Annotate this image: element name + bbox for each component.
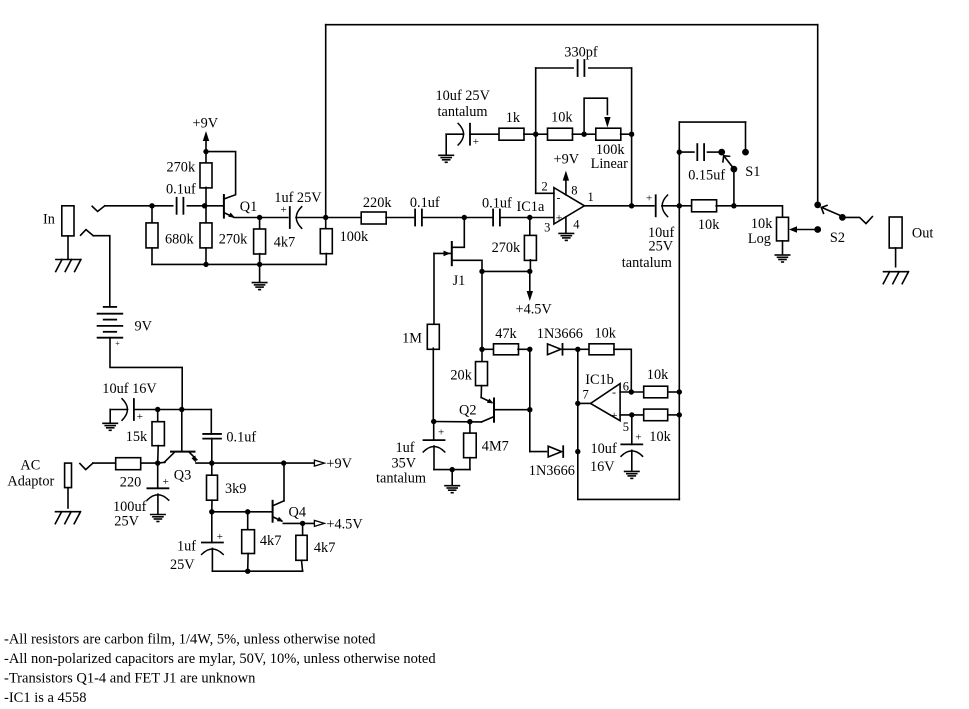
note: wire from ground up-left of cap	[446, 133, 463, 135]
resistor 10k fb lower	[644, 409, 668, 421]
wire cap to Q1 base node	[187, 205, 204, 207]
node 15k top	[155, 407, 160, 412]
svg-text:8: 8	[571, 184, 577, 198]
wire pot to output node	[631, 134, 633, 206]
wire 330pf right leg	[631, 68, 633, 134]
wire 10k fb upper to bus	[668, 391, 680, 393]
wire power rail top	[134, 409, 211, 411]
node output bus	[677, 203, 682, 208]
wire 3k9 bottom lead	[211, 500, 213, 512]
node pin5/cap	[629, 412, 634, 417]
node 4k7 left top	[245, 509, 250, 514]
transistor Q1	[224, 195, 235, 218]
svg-text:4: 4	[573, 218, 580, 232]
ground IC1a pin4	[559, 233, 573, 240]
ground 10k pot	[775, 255, 789, 262]
wire contact to 220	[93, 462, 116, 464]
wire J1 source node down	[481, 271, 483, 349]
capacitor 0.1uf input	[177, 198, 184, 214]
wire 220k to cap	[386, 217, 415, 219]
node Q2 base tap	[527, 407, 532, 412]
svg-text:Log: Log	[748, 231, 771, 247]
resistor 3k9	[207, 475, 218, 500]
wire Q2 base lead	[494, 409, 530, 411]
node S1 wiper	[731, 166, 738, 173]
svg-text:-All non-polarized capacitors: -All non-polarized capacitors are mylar,…	[4, 651, 436, 667]
wire 100k top lead	[325, 218, 327, 229]
svg-text:20k: 20k	[450, 367, 472, 383]
node 0.15uf left	[677, 149, 682, 154]
svg-text:10k: 10k	[698, 217, 720, 233]
svg-text:2: 2	[542, 179, 548, 193]
svg-text:+: +	[137, 411, 143, 423]
svg-text:4k7: 4k7	[274, 234, 295, 250]
switch S2 selector arrow	[821, 205, 840, 215]
wire 220 to node	[141, 462, 158, 464]
battery 9V	[98, 307, 123, 338]
wire node to 10k	[536, 133, 548, 135]
resistor 680k	[146, 223, 158, 248]
wire Q3 base	[181, 410, 183, 451]
arrow +4.5V bias	[527, 291, 533, 301]
svg-text:3: 3	[544, 221, 550, 235]
wire 100uf to ground	[157, 494, 159, 514]
resistor 220k	[361, 212, 386, 224]
in-jack ring contact	[81, 230, 94, 236]
resistor 10k gain	[548, 128, 573, 140]
capacitor 0.1uf power	[203, 434, 221, 439]
wire 270k bias bottom lead	[529, 260, 532, 272]
node rail/4k7/ground	[257, 262, 262, 267]
wire pin3 node to IC1a	[530, 217, 554, 219]
wire Q1 collector	[206, 152, 236, 199]
wire 100k bottom to rail	[325, 254, 328, 265]
wire S1 bracket top	[679, 121, 745, 123]
svg-text:35V: 35V	[392, 455, 417, 471]
AC adaptor jack	[65, 463, 72, 488]
svg-text:IC1a: IC1a	[517, 199, 545, 215]
wire 330pf left leg	[535, 68, 537, 193]
wire rail to ground	[259, 264, 261, 282]
svg-text:270k: 270k	[167, 160, 196, 176]
wire battery to power rail	[110, 338, 182, 410]
svg-text:270k: 270k	[492, 240, 521, 256]
wire 10k env to pin6	[614, 349, 632, 392]
node diode/10k/pin7 bus	[575, 347, 580, 352]
svg-text:6: 6	[623, 379, 629, 393]
resistor 270k lower	[200, 223, 212, 248]
resistor 4k7 right	[296, 535, 307, 560]
svg-text:10uf 16V: 10uf 16V	[102, 381, 157, 397]
node 3k9/base line	[209, 509, 214, 514]
svg-text:10k: 10k	[595, 325, 617, 341]
node pin6	[629, 389, 634, 394]
capacitor 0.1uf mid-2	[493, 210, 500, 226]
wire output bus vertical	[678, 122, 680, 499]
wire top bypass line	[326, 24, 818, 26]
wire 1uf cap to 100k node	[296, 217, 326, 219]
capacitor 1uf 25V	[290, 207, 302, 229]
wire pot right to node	[621, 133, 632, 135]
node IC1a pin3 / 270k	[527, 215, 532, 220]
resistor 4M7	[464, 433, 477, 458]
wire vertical to top bypass wire	[325, 25, 327, 218]
svg-text:0.1uf: 0.1uf	[410, 195, 440, 211]
svg-text:10uf 25V: 10uf 25V	[436, 88, 491, 104]
svg-text:3k9: 3k9	[225, 481, 246, 497]
node fb lower/bus	[677, 412, 682, 417]
wire +9V arrow shaft	[205, 138, 207, 152]
wire bus to 10k	[679, 205, 692, 207]
node S1 terminal 2	[742, 149, 749, 156]
wire 270k IC1a top lead	[529, 218, 531, 236]
wire node to cap 0.1uf	[152, 205, 173, 207]
svg-text:+9V: +9V	[326, 456, 352, 472]
resistor 4k7 left	[242, 530, 255, 554]
wire input stage ground rail	[152, 263, 326, 265]
wire Q2 base vertical	[529, 349, 531, 451]
wire rail corner down	[210, 410, 212, 435]
svg-text:25V: 25V	[170, 557, 195, 573]
AC jack contact	[80, 463, 93, 470]
svg-text:16V: 16V	[590, 459, 615, 475]
node input/680k	[149, 203, 154, 208]
ground ic1b cap	[625, 471, 639, 478]
wire pot wiper jumper	[584, 98, 607, 134]
node Q4 collector takeoff	[281, 460, 286, 465]
wire 0.15uf to S1 term1	[708, 151, 720, 153]
wire 1k to node	[524, 133, 536, 135]
ground envelope	[445, 486, 459, 493]
svg-text:15k: 15k	[126, 429, 148, 445]
svg-text:9V: 9V	[135, 319, 153, 335]
wire 4k7L top lead	[247, 512, 249, 530]
switch S1 selector arrow	[723, 156, 733, 167]
capacitor 0.15uf	[697, 144, 704, 160]
resistor 47k	[494, 344, 519, 355]
node Q1 base	[202, 203, 207, 208]
wire to lower diode	[530, 451, 547, 453]
svg-text:tantalum: tantalum	[622, 255, 672, 271]
wire 1uf power top lead	[211, 512, 213, 543]
svg-text:4k7: 4k7	[260, 533, 281, 549]
op-amp IC1a	[554, 188, 585, 225]
wire 10k fb lower to bus	[668, 414, 680, 416]
node 47k/20k junction	[479, 347, 484, 352]
wire diode to node	[563, 348, 578, 350]
wire 100k node to 220k	[326, 217, 362, 219]
node 47k/diode/Q2-base	[527, 347, 532, 352]
svg-text:-Transistors Q1-4 and FET J1 a: -Transistors Q1-4 and FET J1 are unknown	[4, 671, 256, 687]
svg-text:10k: 10k	[647, 367, 669, 383]
wire Q1 emitter line	[235, 217, 260, 219]
wire Q3 collector to node	[158, 461, 165, 464]
wire pin5 cap lead	[631, 415, 633, 445]
svg-text:+9V: +9V	[193, 116, 219, 132]
wire Q2 collector line	[434, 421, 482, 423]
svg-text:100k: 100k	[340, 229, 369, 245]
wire 20k bottom lead	[480, 386, 482, 398]
resistor 1k	[499, 128, 524, 140]
wire 330pf top right	[589, 67, 632, 69]
wire pot wiper lead	[793, 229, 815, 231]
node fb upper/bus	[677, 389, 682, 394]
svg-text:220k: 220k	[363, 195, 392, 211]
svg-text:220: 220	[120, 474, 141, 490]
svg-text:10uf: 10uf	[591, 441, 617, 457]
svg-text:IC1b: IC1b	[585, 372, 614, 388]
wire node to 10k env	[578, 348, 589, 350]
svg-text:7: 7	[583, 387, 589, 401]
resistor 4k7 Q1	[254, 229, 266, 254]
svg-text:tantalum: tantalum	[376, 471, 426, 487]
svg-text:0.1uf: 0.1uf	[482, 195, 512, 211]
svg-text:25V: 25V	[114, 513, 139, 529]
capacitor 10uf 16V power	[122, 399, 134, 421]
wire Q4 collector	[283, 463, 285, 501]
node J1 drain	[462, 215, 467, 220]
wire Q2 ground rail	[434, 469, 470, 471]
wire S1 wiper down	[733, 169, 735, 206]
wire out jack to ground	[895, 248, 897, 267]
wire 680k top lead	[151, 206, 153, 223]
wire node to pot	[584, 133, 596, 135]
svg-text:+: +	[556, 210, 563, 224]
resistor 100k input stage	[320, 229, 332, 254]
svg-text:+: +	[115, 339, 120, 348]
node battery/power rail	[179, 407, 184, 412]
wire 3k9 top lead	[211, 463, 213, 475]
svg-text:AC: AC	[20, 458, 40, 474]
wire emitter node to 1uf cap	[260, 217, 288, 219]
svg-text:+9V: +9V	[554, 152, 580, 168]
transistor Q2	[481, 398, 494, 422]
wire 1M bottom	[432, 348, 434, 421]
wire tant cap ground lead	[445, 134, 447, 154]
output jack J-out	[889, 217, 902, 248]
wire 330pf top left	[536, 67, 573, 69]
wire 4k7 top lead	[259, 218, 261, 230]
wire in-jack sleeve to ground	[67, 236, 69, 259]
wire tant cap to 1k	[470, 133, 499, 135]
svg-text:J1: J1	[453, 273, 466, 289]
wire IC1b pin6 line	[620, 391, 644, 393]
node +4.5V takeoff	[300, 521, 305, 526]
svg-text:10k: 10k	[551, 110, 573, 126]
node 4M7 top	[467, 419, 472, 424]
svg-text:0.15uf: 0.15uf	[688, 168, 725, 184]
svg-text:47k: 47k	[495, 326, 517, 342]
wire 270k to base node	[205, 187, 207, 222]
svg-text:4M7: 4M7	[482, 439, 509, 455]
svg-text:1N3666: 1N3666	[529, 463, 575, 479]
resistor 220	[116, 458, 141, 470]
wire bias line	[482, 270, 530, 272]
wire cap2 to pin3 node	[500, 217, 530, 219]
svg-text:Q4: Q4	[289, 505, 306, 521]
wire ic1b cap to ground	[631, 450, 633, 470]
svg-text:+: +	[217, 531, 223, 543]
svg-text:-IC1 is a 4558: -IC1 is a 4558	[4, 690, 87, 706]
diode 1N3666 lower	[548, 446, 563, 457]
node Q1 emitter / 4k7	[257, 215, 262, 220]
capacitor 1uf 25V power	[202, 543, 224, 555]
svg-text:1M: 1M	[402, 331, 422, 347]
chassis ground AC jack	[55, 512, 80, 524]
wire bottom feedback	[578, 498, 680, 500]
node rail/270k	[203, 262, 208, 267]
wire 4k7L bottom lead	[247, 554, 249, 572]
node 1k/10k/330pf	[533, 132, 538, 137]
node IC1a output	[629, 203, 634, 208]
wire 4M7 top lead	[469, 422, 471, 433]
wire 680k bottom lead	[151, 248, 153, 264]
svg-text:+4.5V: +4.5V	[326, 517, 363, 533]
wire 15k bottom lead	[157, 446, 160, 463]
wire 1uf power bottom lead	[211, 548, 213, 571]
wire power ground rail	[212, 570, 302, 572]
svg-text:In: In	[43, 212, 55, 228]
wire J1 source lead	[452, 260, 482, 271]
node 100k / feedback takeoff	[323, 215, 328, 220]
svg-text:1uf: 1uf	[177, 539, 196, 555]
svg-text:1: 1	[588, 190, 594, 204]
node +9V / 270k / Q1 collector	[203, 149, 208, 154]
wire to 0.15uf	[679, 151, 694, 153]
capacitor 0.1uf mid-1	[415, 210, 422, 226]
arrow pot wiper	[789, 226, 797, 232]
resistor 10k envelope	[589, 344, 614, 355]
wire 10k to pot node	[572, 133, 584, 135]
svg-text:Adaptor: Adaptor	[7, 473, 54, 489]
svg-text:1k: 1k	[506, 110, 521, 126]
capacitor 10uf 25V tantalum gain	[458, 123, 470, 145]
chassis ground at In jack	[56, 260, 81, 272]
input jack J-in	[62, 206, 74, 236]
node 330pf/100k pot	[629, 132, 634, 137]
wire IC1a output	[584, 205, 631, 207]
wire ground to cap arc	[110, 409, 127, 411]
wire 1uf35 top lead	[433, 422, 435, 441]
transistor J1 JFET	[434, 242, 452, 265]
transistor Q4	[273, 501, 284, 522]
wire J1 drain lead	[452, 218, 465, 248]
wire pin4 to ground	[565, 217, 567, 233]
node pin7 junction	[575, 401, 580, 406]
svg-text:S1: S1	[745, 164, 760, 180]
wire 4k7R bottom lead	[302, 560, 303, 571]
ground power cap	[103, 423, 117, 430]
svg-text:tantalum: tantalum	[438, 104, 488, 120]
wire 15k top lead	[157, 410, 159, 422]
diode 1N3666 upper	[548, 344, 563, 355]
svg-text:4k7: 4k7	[314, 540, 335, 556]
svg-text:680k: 680k	[165, 232, 194, 248]
wire J1 gate to 1M	[433, 253, 435, 325]
wire cap to output bus	[662, 205, 679, 207]
wire pot bottom to ground	[782, 241, 784, 254]
resistor 20k	[476, 362, 488, 386]
svg-text:1uf: 1uf	[396, 440, 415, 456]
capacitor 330pf	[578, 60, 585, 76]
svg-text:+: +	[163, 476, 169, 488]
wire pin7 bus vertical	[577, 349, 579, 499]
svg-text:+: +	[281, 204, 287, 216]
svg-text:0.1uf: 0.1uf	[226, 430, 256, 446]
wire S2 vertical drop	[817, 25, 819, 205]
wire S1 bracket right leg	[745, 122, 747, 149]
capacitor 10uf 25V tantalum output	[656, 195, 668, 217]
svg-text:10k: 10k	[649, 429, 671, 445]
wire cap to J1 node	[422, 217, 464, 219]
svg-text:-: -	[557, 191, 561, 205]
wire 10k to pot corner	[716, 206, 782, 218]
svg-text:+4.5V: +4.5V	[516, 302, 553, 318]
svg-text:S2: S2	[830, 230, 845, 246]
potentiometer 10k Log	[777, 217, 789, 241]
svg-text:Q2: Q2	[459, 402, 476, 418]
node +4.5V bias	[527, 269, 532, 274]
arrow 100k pot wiper	[604, 117, 610, 128]
wire 270k top lead	[205, 152, 207, 164]
node lower diode junction	[575, 449, 580, 454]
ground gain tantalum	[439, 155, 453, 162]
wire IC1b pin5 line	[620, 414, 644, 416]
arrow +9V top-left	[203, 131, 209, 141]
node Q2 ground rail	[450, 467, 455, 472]
wire 1uf35 bottom lead	[433, 446, 435, 470]
resistor 15k	[152, 422, 164, 446]
in-jack tip contact	[92, 206, 105, 212]
terminal +9V	[314, 460, 324, 466]
svg-text:Q3: Q3	[174, 468, 191, 484]
svg-text:Linear: Linear	[591, 156, 629, 172]
transistor Q3	[164, 452, 197, 463]
capacitor 100uf 25V	[147, 488, 169, 500]
wire 47k to diode node	[518, 348, 530, 350]
wire rail to ground	[451, 470, 453, 485]
capacitor 10uf 16V ic1b	[621, 444, 643, 456]
wire ring contact to battery	[93, 236, 110, 307]
wire node to 47k	[482, 348, 494, 350]
wire power cap ground lead	[109, 410, 111, 423]
wire 4M7 bottom lead	[469, 458, 471, 470]
node power rail/4k7L	[245, 569, 250, 574]
node S1 terminal 1	[718, 149, 725, 156]
wire IC1b pin7	[578, 402, 591, 404]
wire output node to cap	[632, 205, 654, 207]
node +9V takeoff	[209, 460, 214, 465]
terminal +4.5V	[314, 520, 324, 526]
node S2 common	[839, 214, 846, 221]
node S2 throw top	[814, 202, 821, 209]
node pot wiper	[814, 226, 821, 233]
potentiometer 100k Linear	[596, 128, 621, 140]
wire Q3 emitter to node	[196, 462, 212, 464]
wire input line	[105, 205, 152, 207]
svg-text:-All resistors are carbon film: -All resistors are carbon film, 1/4W, 5%…	[4, 632, 376, 648]
ground input stage	[252, 283, 266, 290]
wire AC jack to ground	[67, 488, 69, 508]
resistor 270k upper	[200, 163, 212, 188]
node 1M/1uf/Q2 collector	[431, 419, 436, 424]
node S1/output line	[731, 203, 736, 208]
wire pin8 shaft	[565, 178, 567, 195]
node J1 source / +4.5V line	[479, 269, 484, 274]
node 10k/100k pot wiper	[581, 132, 586, 137]
svg-text:Out: Out	[912, 226, 933, 242]
wire 100uf top lead	[157, 463, 159, 488]
